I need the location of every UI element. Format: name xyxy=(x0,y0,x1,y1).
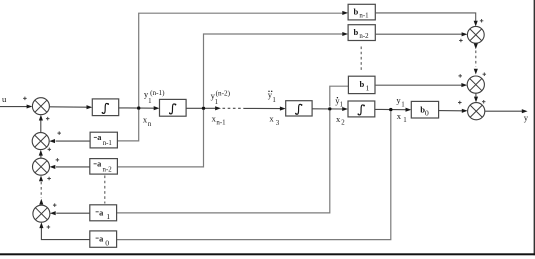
arrowhead up into S4 bottom xyxy=(39,222,43,228)
svg-text:u: u xyxy=(2,94,7,104)
node x_n-1 xyxy=(202,107,205,110)
summer S1 input summer xyxy=(32,98,49,115)
block -a0 xyxy=(90,231,117,247)
integrator block I2 xyxy=(160,99,187,116)
svg-text:(n-2): (n-2) xyxy=(216,90,231,98)
svg-text:b: b xyxy=(354,27,359,37)
svg-text:y: y xyxy=(524,113,529,123)
svg-text:0: 0 xyxy=(105,238,109,247)
summer T2 xyxy=(467,76,484,93)
plus sign top into T2 xyxy=(483,72,487,76)
arrowhead into integrator1 xyxy=(87,105,93,109)
arrowhead output y xyxy=(522,109,528,113)
wire S1 to integrator1 xyxy=(49,106,87,108)
block b1 xyxy=(348,76,375,93)
page border right xyxy=(534,0,535,255)
svg-text:n-1: n-1 xyxy=(359,12,369,19)
wire -a1 to S4 xyxy=(56,212,90,214)
arrowhead down into T3 xyxy=(474,97,478,103)
arrowhead down into T2 xyxy=(474,69,478,75)
wire dashed continuation main row xyxy=(223,107,244,109)
wire dashed T1 to T2 xyxy=(475,51,477,67)
wire -a_n-2 to S3 xyxy=(56,166,90,168)
arrowhead into S3 xyxy=(50,165,56,169)
plus sign a1 into S4 xyxy=(53,203,57,207)
wire b0 to output summer xyxy=(439,110,463,112)
svg-text:3: 3 xyxy=(276,120,280,127)
arrowhead down from T1 xyxy=(474,44,478,50)
wire tap x2 down to a1 xyxy=(117,111,330,213)
plus sign a_n-1 into S2 xyxy=(57,131,61,135)
arrowhead up into S3 from dashes xyxy=(39,176,43,182)
arrowhead into b0 xyxy=(406,108,412,112)
arrowhead up into S1 xyxy=(39,115,43,121)
summer S2 xyxy=(32,133,49,150)
block -a_n-2 xyxy=(90,159,118,175)
wire to integrator3 xyxy=(244,107,281,109)
block b_n-2 xyxy=(348,25,375,41)
arrowhead into S1 xyxy=(27,104,33,108)
arrowhead down into T1 xyxy=(474,21,478,27)
wire b1 to T2 left xyxy=(375,84,462,86)
node x1 xyxy=(389,108,392,111)
svg-text:n-2: n-2 xyxy=(359,33,369,40)
summer S4 xyxy=(33,205,50,222)
arrowhead into integrator3 xyxy=(280,107,286,111)
plus sign S3 into S2 xyxy=(48,148,52,152)
svg-text:1: 1 xyxy=(215,99,219,106)
wire S2 up to S1 xyxy=(40,120,42,133)
svg-text:1: 1 xyxy=(401,102,405,109)
svg-text:x: x xyxy=(269,114,274,124)
arrowhead into T3 left xyxy=(462,109,468,113)
svg-text:x: x xyxy=(397,111,402,121)
wire integrator4 to b0 xyxy=(375,108,406,110)
plus sign b0 into T3 xyxy=(458,101,462,105)
wire tap xn-1 down to a_n-2 xyxy=(117,110,203,167)
wire tap x1 down to a0 xyxy=(117,111,391,239)
arrowhead into b_n-2 xyxy=(342,32,348,36)
wire integrator2 out xyxy=(186,107,215,109)
arrowhead into T1 left xyxy=(462,32,468,36)
wire integrator1 to integrator2 xyxy=(119,107,155,109)
arrowhead into integrator2 xyxy=(154,106,160,110)
arrowhead into T2 left xyxy=(461,83,467,87)
arrowhead into b_n-1 xyxy=(342,11,348,15)
plus sign b1 into T2 xyxy=(458,74,462,78)
dashed continuation left summers xyxy=(40,182,42,198)
plus sign a_n-2 into S3 xyxy=(56,158,60,162)
plus sign b_n-2 into T1 xyxy=(459,39,463,43)
svg-text:n-2: n-2 xyxy=(103,166,113,173)
integrator block I3 xyxy=(286,101,312,116)
wire T2 down to T3 xyxy=(475,93,477,97)
wire tap xn up to b_n-1 xyxy=(139,13,343,106)
summer T3 output summer xyxy=(468,103,485,120)
plus sign u into S1 xyxy=(23,97,27,101)
plus sign a0 into S4 xyxy=(47,225,51,229)
svg-text:0: 0 xyxy=(425,109,429,118)
wire integrator3 to integrator4 xyxy=(312,108,343,110)
svg-text:n-1: n-1 xyxy=(216,120,226,127)
arrowhead up into S2 xyxy=(39,150,43,156)
svg-text:2: 2 xyxy=(341,120,345,127)
svg-text:b: b xyxy=(360,79,365,89)
wire -a0 to S4 bottom xyxy=(41,228,89,240)
plus sign S2 into S1 xyxy=(46,117,50,121)
dashed continuation b column xyxy=(360,47,362,72)
arrowhead into integrator4 xyxy=(342,107,348,111)
arrowhead into S2 xyxy=(49,139,55,143)
integrator block I4 xyxy=(348,101,375,117)
wire -a_n-1 to S2 xyxy=(56,140,91,142)
wire b_n-1 to T1 top xyxy=(375,13,475,21)
arrowhead mid chain xyxy=(215,106,221,110)
block b_n-1 xyxy=(348,4,375,20)
node x_n xyxy=(137,106,140,109)
wire tap x2 up to b1 xyxy=(330,86,349,106)
arrowhead into S4 xyxy=(50,211,56,215)
wire S3 up to S2 xyxy=(40,155,42,159)
svg-text:1: 1 xyxy=(366,83,370,92)
summer T1 xyxy=(467,26,484,43)
wire b_n-2 to T1 left xyxy=(375,33,462,35)
block -a1 xyxy=(90,205,117,221)
integrator block I1 xyxy=(92,99,118,116)
svg-text:1: 1 xyxy=(272,97,276,104)
block -a_n-1 xyxy=(90,132,117,148)
arrowhead up from S4 to dashes xyxy=(39,199,43,205)
plus sign top into T1 xyxy=(480,19,484,23)
dashed continuation a column xyxy=(104,176,106,204)
wire output y xyxy=(485,110,522,112)
svg-text:1: 1 xyxy=(106,212,110,221)
plus sign top into T3 xyxy=(482,100,486,104)
page border bottom xyxy=(0,253,535,255)
block b0 xyxy=(411,101,438,118)
svg-text:1: 1 xyxy=(403,117,407,124)
summer S3 xyxy=(33,158,50,175)
wire u input xyxy=(0,106,27,108)
svg-text:1: 1 xyxy=(148,98,152,105)
svg-text:(n-1): (n-1) xyxy=(150,89,165,97)
svg-text:n-1: n-1 xyxy=(103,140,113,147)
wire tap xn down to a_n-1 xyxy=(117,110,138,141)
svg-text:n: n xyxy=(148,121,152,128)
wire tap xn-1 up to b_n-2 xyxy=(204,34,343,107)
node x2 xyxy=(328,107,331,110)
svg-text:b: b xyxy=(354,6,359,16)
plus sign dash into S3 xyxy=(47,177,51,181)
